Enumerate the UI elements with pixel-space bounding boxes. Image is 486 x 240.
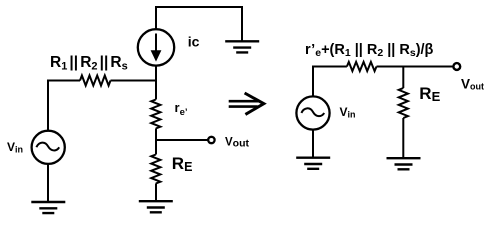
wire: R_E to ground (right circuit): [402, 118, 404, 158]
wire: v_in (-) to ground: [47, 164, 49, 203]
equivalence arrow =>: [229, 93, 264, 114]
svg-text:RE: RE: [172, 154, 193, 174]
svg-text:r’e+(R1 || R2 || Rs)/β: r’e+(R1 || R2 || Rs)/β: [305, 42, 434, 59]
svg-text:Vout: Vout: [225, 137, 249, 150]
svg-text:ic: ic: [188, 34, 200, 50]
current source ic: [138, 29, 174, 65]
wire: input resistor to emitter node column: [111, 80, 158, 82]
ground (below R_E, left circuit): [139, 201, 173, 212]
svg-text:re’: re’: [175, 100, 188, 118]
wire: v_in (-) to ground (right circuit): [312, 129, 314, 157]
wire: v_in (+) up to input resistor: [48, 81, 80, 132]
resistor r_e': [151, 100, 160, 129]
ground (below v_in, right circuit): [296, 158, 330, 169]
wire: current source to top ground: [156, 7, 242, 41]
ground (below v_in, left circuit): [31, 202, 65, 213]
svg-text:Vin: Vin: [340, 105, 356, 120]
svg-text:Vout: Vout: [461, 77, 484, 92]
svg-text:RE: RE: [419, 84, 440, 104]
terminal vout (left circuit): [208, 137, 214, 143]
voltage source v_in (left), sine symbol: [32, 131, 65, 164]
ground (below R_E, right circuit): [387, 158, 421, 169]
resistor R_E (right circuit): [399, 88, 408, 118]
wire: current source to r_e': [155, 65, 157, 99]
wire: r_e' to R_E: [155, 129, 157, 155]
wire: v_in to series resistor (right circuit): [313, 67, 347, 97]
wire: R_E to ground (left circuit): [155, 184, 157, 202]
voltage source v_in (right), sine symbol: [296, 96, 329, 129]
resistor R_E (left circuit): [151, 155, 160, 184]
wire: node to vout terminal (left): [156, 139, 208, 141]
svg-text:R1 || R2 || Rs: R1 || R2 || Rs: [50, 54, 128, 73]
ground (top, left circuit): [225, 41, 259, 52]
wire: series resistor to vout terminal (right circuit): [377, 66, 454, 68]
resistor R1 || R2 || Rs: [80, 76, 111, 86]
wire: output node down to R_E (right circuit): [402, 67, 404, 89]
resistor r'e+(R1||R2||Rs)/beta: [347, 62, 377, 71]
terminal vout (right circuit): [453, 63, 460, 70]
svg-text:Vin: Vin: [7, 140, 23, 155]
